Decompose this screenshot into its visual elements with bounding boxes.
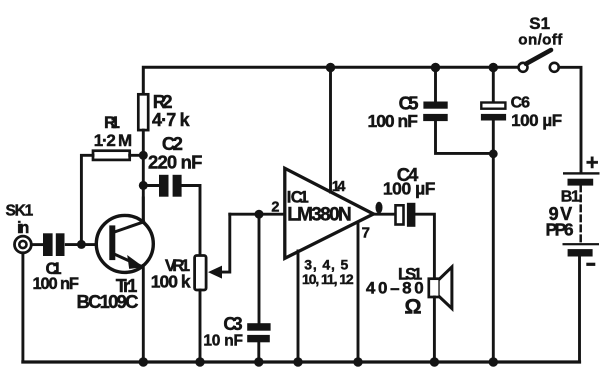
wire IC output to C4 bbox=[373, 213, 396, 216]
wire speaker bottom to ground rail bbox=[433, 297, 436, 362]
wire R1 right end to collector column bbox=[130, 154, 144, 157]
capacitor C1 bbox=[33, 233, 80, 293]
wire C5 bottom to join line bbox=[436, 121, 494, 153]
wire VR1 bottom to ground rail bbox=[199, 290, 202, 362]
node emitter/ground bbox=[139, 357, 148, 366]
wire C6 top lead bbox=[492, 67, 495, 102]
svg-text:PP6: PP6 bbox=[546, 220, 574, 240]
node C5/C6 join bbox=[489, 149, 498, 158]
svg-text:10, 11, 12: 10, 11, 12 bbox=[302, 271, 354, 287]
svg-text:+: + bbox=[586, 150, 599, 175]
svg-text:C6: C6 bbox=[511, 95, 530, 112]
node VR1/ground bbox=[195, 357, 204, 366]
svg-text:C3: C3 bbox=[223, 314, 242, 334]
node C2 junction bbox=[139, 181, 148, 190]
svg-text:7: 7 bbox=[362, 224, 370, 241]
svg-text:1: 1 bbox=[541, 14, 550, 33]
wire C2 right lead to VR1 top bbox=[182, 186, 200, 256]
svg-text:on/off: on/off bbox=[518, 32, 563, 49]
capacitor C4 bbox=[383, 164, 436, 227]
connector SK1 bbox=[6, 202, 34, 253]
capacitor C6 bbox=[481, 95, 562, 130]
wire SK1 to C1 bbox=[31, 243, 44, 246]
svg-text:in: in bbox=[17, 219, 29, 237]
wire switch to battery bbox=[559, 67, 581, 172]
node R1/R2 junction bbox=[139, 151, 148, 160]
pin 7 wire bbox=[357, 223, 360, 363]
capacitor C2 bbox=[148, 133, 202, 197]
wire C4 to speaker bbox=[415, 214, 434, 279]
node C6/ground bbox=[489, 357, 498, 366]
wire SK1 down to ground rail bbox=[21, 253, 24, 362]
wire collector column bbox=[142, 155, 145, 222]
svg-text:100 µF: 100 µF bbox=[511, 111, 562, 130]
svg-text:100 k: 100 k bbox=[151, 272, 191, 292]
wire battery to ground rail bbox=[578, 257, 581, 363]
pin 14 wire from top rail bbox=[329, 67, 332, 192]
svg-text:14: 14 bbox=[332, 179, 346, 195]
ground pins wire 3,4,5,10,11,12 bbox=[297, 251, 300, 362]
switch S1 bbox=[518, 14, 563, 72]
wire R1 left end down to base node bbox=[81, 155, 93, 244]
wire C6 bottom down to ground rail bbox=[492, 121, 495, 363]
wire R2 bottom to collector node bbox=[142, 130, 145, 155]
potentiometer VR1 bbox=[151, 256, 206, 292]
wire C3 bottom lead bbox=[257, 342, 260, 362]
resistor R2 bbox=[138, 91, 190, 130]
svg-text:10 nF: 10 nF bbox=[203, 332, 243, 349]
svg-text:LM380N: LM380N bbox=[287, 205, 352, 226]
node pin14/top rail bbox=[326, 63, 335, 72]
svg-text:4·7 k: 4·7 k bbox=[152, 110, 191, 130]
top supply rail wire bbox=[143, 67, 518, 94]
VR1 wiper arrow bbox=[208, 214, 230, 278]
wire emitter down to ground rail bbox=[142, 265, 145, 362]
node base/R1 junction bbox=[77, 240, 86, 249]
node C5/top rail bbox=[431, 63, 440, 72]
ground rail wire bbox=[23, 360, 580, 363]
node pin7/ground bbox=[353, 357, 362, 366]
svg-text:R1: R1 bbox=[104, 113, 120, 132]
node IC output bbox=[376, 202, 383, 214]
capacitor C5 bbox=[368, 92, 448, 131]
svg-text:2: 2 bbox=[271, 200, 279, 216]
resistor R1 bbox=[93, 113, 132, 160]
svg-text:1: 1 bbox=[571, 189, 580, 206]
wire IC pin 2 input line bbox=[230, 213, 285, 216]
loudspeaker LS1 bbox=[366, 265, 452, 318]
svg-text:S: S bbox=[529, 14, 540, 33]
wire collector up from circle bbox=[142, 198, 145, 222]
svg-text:220 nF: 220 nF bbox=[148, 152, 202, 173]
node C6/top rail bbox=[489, 63, 498, 72]
battery B1 bbox=[546, 150, 600, 266]
svg-text:100 µF: 100 µF bbox=[383, 179, 436, 199]
node C3/ground bbox=[254, 357, 263, 366]
wire C3 top lead bbox=[258, 214, 261, 323]
svg-text:BC109C: BC109C bbox=[77, 291, 139, 312]
svg-text:SK1: SK1 bbox=[6, 202, 34, 219]
op-amp IC1 LM380N bbox=[285, 168, 374, 258]
wire C1 to base bbox=[66, 243, 109, 246]
svg-text:100 nF: 100 nF bbox=[368, 111, 419, 131]
transistor Tr1 bbox=[77, 215, 154, 312]
wire C2 left lead bbox=[143, 184, 159, 187]
svg-text:1·2 M: 1·2 M bbox=[94, 131, 132, 150]
svg-text:Ω: Ω bbox=[404, 295, 421, 319]
svg-text:100 nF: 100 nF bbox=[33, 275, 80, 293]
node IC ground pins/ground bbox=[293, 357, 302, 366]
node C3 junction on pin2 line bbox=[255, 210, 264, 219]
capacitor C3 bbox=[203, 314, 270, 349]
wire C5 top lead bbox=[434, 67, 437, 101]
node speaker/ground bbox=[430, 357, 439, 366]
